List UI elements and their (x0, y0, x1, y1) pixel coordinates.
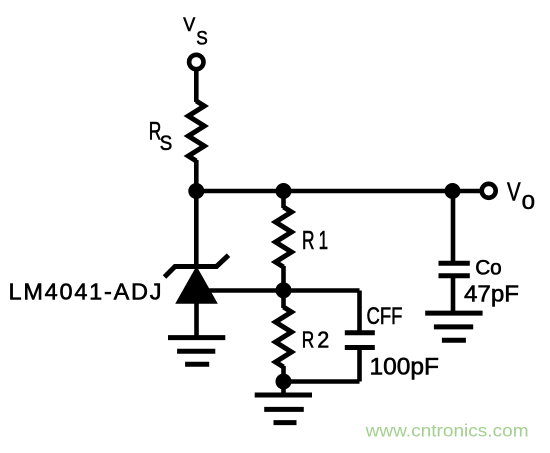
svg-text:100pF: 100pF (370, 355, 440, 381)
svg-text:S: S (160, 131, 173, 155)
svg-text:1: 1 (319, 227, 329, 255)
svg-text:LM4041-ADJ: LM4041-ADJ (9, 279, 162, 305)
svg-text:CFF: CFF (367, 303, 403, 330)
svg-text:R: R (302, 327, 315, 353)
svg-text:V: V (183, 14, 195, 36)
svg-text:S: S (196, 27, 208, 49)
svg-text:www.cntronics.com: www.cntronics.com (365, 421, 529, 441)
svg-text:47pF: 47pF (464, 281, 519, 307)
svg-text:V: V (507, 179, 521, 207)
svg-text:0: 0 (522, 191, 535, 214)
svg-text:2: 2 (317, 327, 329, 353)
svg-text:Co: Co (475, 257, 502, 280)
svg-text:R: R (302, 227, 315, 255)
